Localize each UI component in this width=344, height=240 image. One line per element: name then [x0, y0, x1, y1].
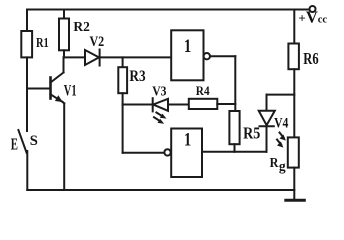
- svg-text:R4: R4: [196, 83, 210, 98]
- svg-text:R6: R6: [303, 49, 318, 68]
- diode V4: [259, 111, 289, 132]
- wire R3 bottom to node: [122, 93, 124, 104]
- wire R4 to node B: [217, 103, 235, 105]
- svg-text:R2: R2: [73, 19, 90, 34]
- wire right rail lower: [293, 168, 295, 200]
- wire U1 output: [210, 55, 235, 57]
- wire node vertical left: [122, 105, 124, 153]
- resistor R2: [59, 19, 90, 51]
- wire collector: [63, 57, 65, 72]
- resistor R4: [189, 83, 218, 109]
- wire node B vertical: [234, 56, 236, 111]
- power terminal +Vcc: [298, 6, 327, 26]
- wire right rail middle: [293, 69, 295, 137]
- svg-text:R1: R1: [36, 36, 49, 51]
- svg-text:1: 1: [184, 130, 191, 151]
- wire top rail: [27, 9, 310, 11]
- inverter gate U2: [164, 129, 202, 178]
- resistor R5: [229, 111, 260, 144]
- svg-text:V2: V2: [90, 34, 105, 50]
- wire V4 cathode down: [266, 126, 268, 152]
- wire gate U2 input row: [202, 151, 267, 153]
- resistor R1: [21, 31, 49, 57]
- switch S: [11, 130, 38, 154]
- inverter gate U1: [171, 30, 210, 80]
- wire right rail upper: [293, 10, 295, 44]
- svg-text:1: 1: [184, 36, 191, 57]
- photoresistor Rg: [270, 133, 299, 174]
- wire base of V1: [27, 88, 51, 90]
- wire R2 top stub: [63, 10, 65, 19]
- wire V4 anode stub: [266, 95, 268, 111]
- svg-text:V4: V4: [274, 115, 289, 131]
- wire V2 cathode to gate U1 input: [100, 56, 172, 58]
- svg-text:R5: R5: [243, 124, 260, 143]
- svg-text:V3: V3: [152, 83, 166, 98]
- transistor V1: [51, 73, 77, 104]
- ground bar: [286, 199, 305, 202]
- wire left rail upper: [26, 10, 28, 32]
- wire U2 output to node: [123, 152, 165, 154]
- wire R5 bottom stub: [234, 144, 236, 152]
- svg-text:V1: V1: [64, 83, 77, 100]
- wire node to V3 cathode: [123, 104, 153, 106]
- resistor R6: [288, 44, 318, 70]
- wire left rail lower: [26, 151, 28, 190]
- diode V2: [85, 34, 104, 65]
- svg-text:E: E: [11, 135, 18, 154]
- svg-text:S: S: [30, 133, 38, 149]
- wire R3 top stub: [122, 57, 124, 67]
- wire node A horizontal: [267, 94, 295, 96]
- resistor R3: [118, 67, 146, 93]
- svg-text:g: g: [279, 158, 286, 173]
- wire V3 anode to R4: [168, 104, 189, 106]
- LED V3: [152, 83, 168, 123]
- svg-text:R3: R3: [129, 68, 145, 85]
- wire emitter rail: [63, 103, 65, 190]
- wire V2 anode: [64, 56, 86, 58]
- wire left rail middle: [26, 57, 28, 131]
- wire R2 bottom stub: [63, 50, 65, 57]
- wire bottom rail: [27, 189, 294, 191]
- svg-text:R: R: [270, 156, 280, 171]
